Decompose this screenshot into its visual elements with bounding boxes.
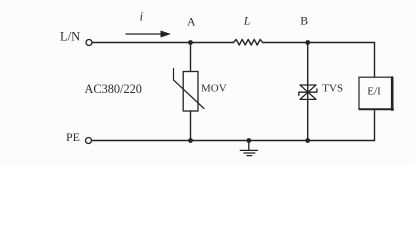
svg-text:A: A: [187, 14, 196, 28]
current arrow: [126, 33, 162, 35]
svg-text:MOV: MOV: [201, 82, 227, 94]
diode TVS: [299, 85, 317, 99]
inductor L: [234, 39, 263, 45]
node B: [305, 40, 310, 45]
svg-text:i: i: [140, 9, 144, 24]
junction TVS-PE: [305, 138, 310, 143]
svg-text:L/N: L/N: [60, 30, 80, 44]
svg-text:B: B: [300, 13, 308, 27]
wire MOV branch upper: [190, 43, 192, 72]
load E/I box: [359, 77, 392, 109]
wire top: L/N to zigzag: [92, 42, 233, 44]
varistor MOV body: [183, 72, 198, 112]
ground: [240, 141, 257, 156]
svg-text:PE: PE: [66, 130, 80, 144]
junction ground: [246, 138, 251, 143]
varistor MOV diagonal: [174, 69, 205, 109]
wire top: zigzag to E/I box: [263, 43, 375, 78]
svg-text:AC380/220: AC380/220: [85, 82, 142, 96]
node L/N terminal: [86, 40, 92, 46]
svg-text:E/I: E/I: [367, 86, 381, 98]
wire bottom PE rail: [92, 110, 375, 141]
wire MOV branch lower: [190, 111, 192, 141]
node PE terminal: [86, 138, 92, 144]
svg-text:L: L: [243, 13, 251, 27]
node A: [188, 40, 193, 45]
wire TVS branch: [307, 43, 309, 141]
junction MOV-PE: [188, 138, 193, 143]
svg-text:TVS: TVS: [322, 82, 343, 94]
